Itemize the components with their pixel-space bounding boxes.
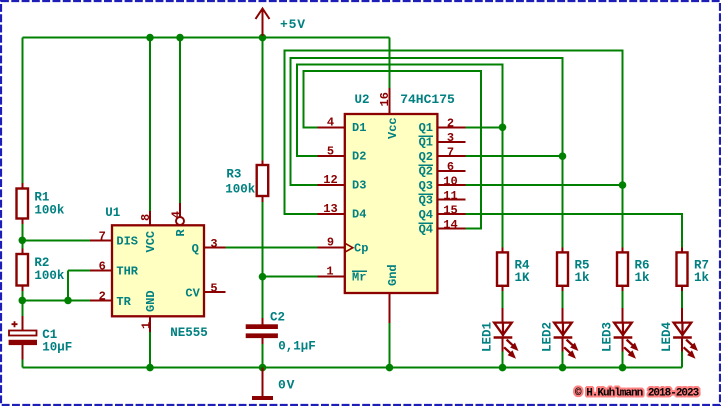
svg-text:12: 12 bbox=[323, 173, 337, 187]
svg-text:Q2: Q2 bbox=[419, 165, 433, 179]
svg-text:R4: R4 bbox=[515, 258, 531, 272]
svg-text:1k: 1k bbox=[575, 271, 591, 285]
svg-text:8: 8 bbox=[139, 214, 153, 221]
svg-text:TR: TR bbox=[116, 295, 131, 309]
svg-text:Vcc: Vcc bbox=[386, 117, 400, 139]
svg-text:R: R bbox=[174, 229, 188, 237]
svg-text:5: 5 bbox=[327, 144, 334, 158]
svg-text:14: 14 bbox=[443, 218, 457, 232]
svg-text:LED2: LED2 bbox=[541, 322, 555, 352]
svg-text:Cp: Cp bbox=[354, 242, 368, 256]
svg-text:10: 10 bbox=[443, 175, 457, 189]
svg-text:4: 4 bbox=[170, 211, 184, 218]
svg-text:C2: C2 bbox=[270, 311, 285, 325]
svg-text:74HC175: 74HC175 bbox=[400, 92, 455, 107]
svg-text:LED3: LED3 bbox=[601, 322, 615, 352]
svg-text:Q1: Q1 bbox=[419, 136, 433, 150]
svg-text:6: 6 bbox=[99, 259, 106, 273]
svg-text:Q4: Q4 bbox=[419, 208, 433, 222]
svg-text:3: 3 bbox=[210, 237, 217, 251]
svg-text:R2: R2 bbox=[34, 256, 49, 270]
svg-text:D1: D1 bbox=[352, 121, 366, 135]
svg-text:+5V: +5V bbox=[280, 17, 306, 32]
svg-text:LED4: LED4 bbox=[660, 321, 674, 352]
svg-text:R5: R5 bbox=[575, 258, 590, 272]
svg-text:Q2: Q2 bbox=[419, 150, 433, 164]
svg-text:R6: R6 bbox=[635, 258, 650, 272]
svg-text:VCC: VCC bbox=[144, 231, 158, 253]
svg-text:4: 4 bbox=[327, 115, 334, 129]
svg-text:7: 7 bbox=[447, 146, 454, 160]
svg-text:1k: 1k bbox=[635, 271, 651, 285]
svg-text:U2: U2 bbox=[355, 93, 370, 107]
svg-text:© H.Kuhlmann 2018-2023: © H.Kuhlmann 2018-2023 bbox=[575, 388, 700, 400]
svg-text:1K: 1K bbox=[515, 271, 531, 285]
svg-text:15: 15 bbox=[443, 203, 457, 217]
svg-text:Q: Q bbox=[192, 242, 199, 256]
svg-text:100k: 100k bbox=[225, 183, 256, 197]
svg-text:1: 1 bbox=[326, 265, 333, 279]
svg-text:5: 5 bbox=[210, 282, 217, 296]
svg-text:DIS: DIS bbox=[116, 235, 138, 249]
svg-text:100k: 100k bbox=[34, 204, 65, 218]
svg-text:7: 7 bbox=[99, 229, 106, 243]
svg-text:GND: GND bbox=[144, 290, 158, 312]
svg-text:R3: R3 bbox=[226, 168, 241, 182]
svg-text:3: 3 bbox=[447, 131, 454, 145]
svg-text:NE555: NE555 bbox=[170, 326, 208, 340]
svg-text:2: 2 bbox=[447, 117, 454, 131]
svg-text:Gnd: Gnd bbox=[386, 264, 400, 286]
svg-text:16: 16 bbox=[378, 92, 392, 106]
svg-text:Q1: Q1 bbox=[419, 121, 433, 135]
svg-text:R1: R1 bbox=[34, 191, 49, 205]
svg-text:D2: D2 bbox=[352, 150, 366, 164]
svg-text:1: 1 bbox=[139, 322, 153, 329]
svg-text:0V: 0V bbox=[278, 378, 295, 393]
svg-text:Q3: Q3 bbox=[419, 179, 433, 193]
svg-text:9: 9 bbox=[327, 236, 334, 250]
svg-text:CV: CV bbox=[185, 287, 200, 301]
svg-text:13: 13 bbox=[323, 202, 337, 216]
svg-text:THR: THR bbox=[116, 265, 138, 279]
svg-text:Q4: Q4 bbox=[419, 223, 433, 237]
svg-text:2: 2 bbox=[99, 290, 106, 304]
svg-text:R7: R7 bbox=[694, 258, 709, 272]
svg-text:100k: 100k bbox=[34, 269, 65, 283]
svg-text:Q3: Q3 bbox=[419, 194, 433, 208]
svg-text:D3: D3 bbox=[352, 179, 366, 193]
svg-text:Mr: Mr bbox=[352, 271, 366, 285]
svg-text:D4: D4 bbox=[352, 208, 366, 222]
svg-text:10µF: 10µF bbox=[42, 341, 72, 355]
svg-text:0,1µF: 0,1µF bbox=[278, 340, 316, 354]
svg-text:11: 11 bbox=[443, 189, 457, 203]
svg-text:LED1: LED1 bbox=[481, 322, 495, 352]
svg-text:U1: U1 bbox=[105, 206, 120, 220]
svg-text:6: 6 bbox=[447, 160, 454, 174]
svg-text:1k: 1k bbox=[694, 271, 710, 285]
